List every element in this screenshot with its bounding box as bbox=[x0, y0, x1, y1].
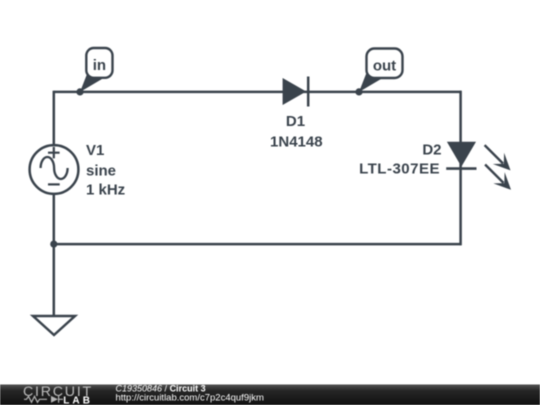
junction node in (dot) bbox=[76, 88, 83, 95]
wire ground stem bbox=[53, 244, 56, 316]
wire V1 bottom lead bbox=[53, 194, 56, 245]
svg-text:V1: V1 bbox=[86, 142, 104, 159]
svg-text:LTL-307EE: LTL-307EE bbox=[359, 161, 440, 178]
node out flag bbox=[359, 49, 403, 93]
junction bottom node (dot) bbox=[50, 241, 57, 248]
wire left vertical (V1 top lead) bbox=[53, 91, 56, 145]
svg-text:1N4148: 1N4148 bbox=[270, 134, 323, 151]
wire right vertical (LED branch) bbox=[459, 91, 462, 246]
svg-text:sine: sine bbox=[86, 163, 116, 180]
footer circuit id text bbox=[116, 383, 264, 403]
svg-text:1 kHz: 1 kHz bbox=[86, 182, 125, 199]
ground bbox=[33, 316, 75, 335]
svg-text:D1: D1 bbox=[286, 113, 305, 130]
CircuitLab logo bbox=[23, 384, 93, 405]
node in flag bbox=[80, 48, 113, 92]
wire top rail bbox=[54, 91, 462, 94]
LED D2 bbox=[446, 142, 511, 190]
D2 value label bbox=[359, 142, 441, 178]
svg-text:out: out bbox=[373, 58, 396, 75]
V1 value label bbox=[86, 142, 125, 199]
diode D1 bbox=[283, 77, 309, 107]
svg-text:http://circuitlab.com/c7p2c4qu: http://circuitlab.com/c7p2c4quf9jkm bbox=[116, 393, 264, 404]
svg-text:in: in bbox=[93, 57, 106, 74]
footer bar bbox=[0, 385, 540, 405]
wire bottom rail bbox=[54, 243, 462, 246]
svg-text:LAB: LAB bbox=[63, 396, 93, 405]
junction node out (dot) bbox=[355, 88, 362, 95]
D1 value label bbox=[270, 113, 323, 151]
voltage source V1 bbox=[30, 145, 79, 194]
svg-text:D2: D2 bbox=[422, 142, 441, 159]
